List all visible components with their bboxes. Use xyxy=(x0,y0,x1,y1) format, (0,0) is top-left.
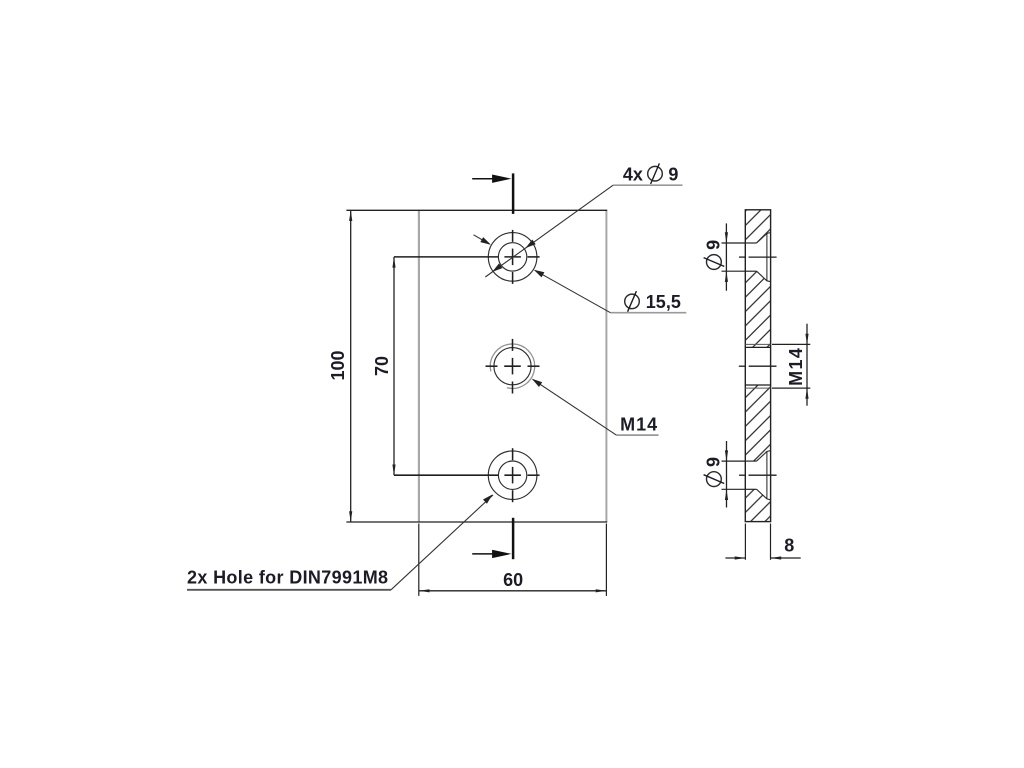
dimension line M14 xyxy=(806,324,808,406)
bottom hole bore circle (diam 9) xyxy=(498,461,526,489)
front view plate left edge xyxy=(418,210,420,522)
dim dia9 bottom extension lines xyxy=(722,460,746,462)
dimension line 60 xyxy=(419,590,607,592)
top hole countersink outer circle (diam 15.5) xyxy=(488,233,537,282)
callout DIN7991M8 underline xyxy=(187,589,391,591)
dimension line dia9 top xyxy=(725,223,727,290)
dimension line 70 xyxy=(393,257,395,475)
dim 60 extension line left xyxy=(418,524,420,596)
svg-text:70: 70 xyxy=(372,356,392,376)
svg-text:8: 8 xyxy=(784,536,794,556)
svg-text:2x Hole for DIN7991M8: 2x Hole for DIN7991M8 xyxy=(187,567,388,587)
side view M14 minor bore lines xyxy=(745,346,770,348)
middle hole vertical centerline xyxy=(512,339,514,351)
callout dia15.5 leader underline xyxy=(610,312,686,314)
section cutting line top (thick) xyxy=(512,173,515,214)
section hatching region above top hole xyxy=(745,210,770,243)
front view plate right edge xyxy=(605,210,607,522)
section cutting line bottom (thick) xyxy=(512,518,515,559)
top hole horizontal centerline xyxy=(394,256,499,258)
top hole bore circle (diam 9) xyxy=(498,243,526,271)
middle hole M14 minor circle xyxy=(494,348,531,385)
side view countersunk hole top xyxy=(745,242,756,244)
dimension line 8 xyxy=(725,557,745,559)
section view direction arrow top xyxy=(472,178,494,180)
callout text dia 15,5 xyxy=(625,294,640,309)
section hatching region below bottom hole xyxy=(745,489,770,521)
callout M14 leader underline xyxy=(616,434,658,436)
middle hole M14 thread arc (major diameter, open at lower-left) xyxy=(490,344,534,388)
svg-text:M14: M14 xyxy=(786,347,806,386)
svg-text:9: 9 xyxy=(704,240,724,250)
dim 60 extension line right xyxy=(605,524,607,596)
dimension line 100 xyxy=(350,210,352,522)
svg-text:M14: M14 xyxy=(620,414,658,434)
side view hole bottom centerline xyxy=(739,474,746,476)
side section outline xyxy=(745,210,770,522)
dimension text dia9 bottom xyxy=(704,457,725,487)
top hole vertical centerline xyxy=(512,230,514,242)
callout dia15.5 leader line xyxy=(535,270,611,312)
section hatching region between M14 and bottom hole xyxy=(745,385,770,461)
dim 8 extension lines xyxy=(744,524,746,560)
side view M14 centerline xyxy=(739,365,746,367)
side view countersunk hole bottom xyxy=(745,460,756,462)
bottom hole vertical centerline xyxy=(512,448,514,460)
side view M14 thread major lines (thin) xyxy=(745,343,770,345)
svg-text:9: 9 xyxy=(668,165,678,185)
middle hole horizontal centerline xyxy=(486,365,498,367)
front view plate bottom edge / dim 100 extension line xyxy=(346,521,607,523)
callout 4x dia9 leader underline xyxy=(613,184,682,186)
svg-text:15,5: 15,5 xyxy=(646,292,681,312)
section hatching region between top hole and M14 xyxy=(745,271,770,347)
callout 4x dia9 leader line xyxy=(485,185,613,277)
top hole short leader arrow upper-left xyxy=(474,235,490,244)
front view plate top edge / dim 100 extension line xyxy=(346,209,607,211)
side view hole top centerline xyxy=(739,256,746,258)
callout DIN7991M8 leader line xyxy=(391,495,493,590)
dimension line dia9 bottom xyxy=(726,441,728,508)
bottom hole countersink outer circle (diam 15.5) xyxy=(488,451,537,500)
svg-text:100: 100 xyxy=(328,350,348,380)
dimension text dia9 top xyxy=(704,240,725,270)
callout M14 leader line xyxy=(533,379,617,435)
svg-text:9: 9 xyxy=(704,457,724,467)
svg-text:60: 60 xyxy=(503,570,523,590)
bottom hole horizontal centerline xyxy=(394,474,499,476)
dim M14 extension lines xyxy=(772,343,810,345)
section view direction arrow bottom xyxy=(472,553,494,555)
dim dia9 top extension lines xyxy=(722,242,746,244)
svg-text:4x: 4x xyxy=(623,165,643,185)
